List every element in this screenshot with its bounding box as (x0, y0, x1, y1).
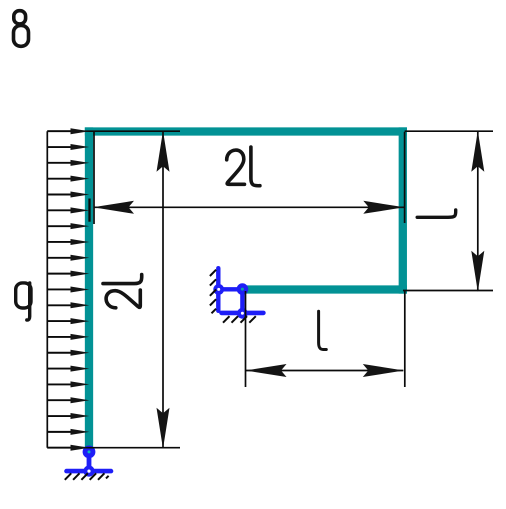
distributed load q: left boundary line (46, 131, 48, 448)
load arrow 18 (47, 397, 89, 403)
dimension l bottom horizontal: line with arrowheads (246, 364, 404, 377)
support B: double-link wall support at left end of lower beam (213, 268, 263, 318)
load arrow 7 (47, 223, 89, 229)
load arrow 12 (47, 302, 89, 308)
label: l (bottom horizontal dimension) (319, 311, 327, 349)
load arrow 15 (47, 350, 89, 356)
dimension l right vertical: line with arrowheads (471, 131, 484, 292)
load arrow 8 (47, 239, 89, 245)
frame member: top beam (85, 127, 407, 135)
load arrow 20 (47, 429, 89, 435)
load arrow 6 (47, 207, 89, 213)
label: task number 8 (14, 11, 29, 47)
load arrow 1 (47, 128, 89, 134)
distributed load q: bottom boundary / extension line (47, 447, 180, 449)
support A: pinned link support at base of left column (67, 446, 112, 477)
extension line: right of bottom l dimension (404, 291, 406, 387)
label: 2l rotated (left vertical dimension) (103, 275, 142, 308)
support A ground hatching (65, 473, 109, 480)
label: load intensity q (16, 283, 31, 320)
extension line: top of right l dimension (405, 130, 493, 132)
load arrow 11 (47, 286, 89, 292)
load arrow 21 (47, 445, 89, 451)
dimension 2l horizontal: line with arrowheads (93, 201, 405, 214)
load arrow 14 (47, 334, 89, 340)
support B wall hatching (210, 270, 216, 314)
frame member: lower beam (246, 285, 407, 293)
label: 2l (top horizontal dimension) (227, 147, 260, 186)
load arrow 4 (47, 176, 89, 182)
frame member: left column (85, 127, 93, 447)
extension line: bottom of right l dimension (403, 290, 493, 292)
support B ground hatching (223, 316, 256, 323)
extension line: left of 2l horizontal dimension (93, 132, 95, 224)
extension stub on column axis at 2l dimension (88, 199, 90, 222)
extension line: left of bottom l dimension (245, 291, 247, 387)
load arrow 9 (47, 255, 89, 261)
load arrow 3 (47, 160, 89, 166)
load arrow 17 (47, 381, 89, 387)
distributed load q: top boundary / extension line (47, 130, 180, 132)
load arrow 16 (47, 366, 89, 372)
dimension 2l vertical: line with arrowheads (157, 131, 170, 449)
load arrow 19 (47, 413, 89, 419)
load arrow 2 (47, 144, 89, 150)
extension line: right of 2l horizontal dimension (404, 132, 406, 223)
load arrow 13 (47, 318, 89, 324)
frame member: right column (399, 127, 407, 293)
load arrow 10 (47, 271, 89, 277)
load arrow 5 (47, 192, 89, 198)
label: l rotated (right vertical dimension) (417, 210, 456, 217)
